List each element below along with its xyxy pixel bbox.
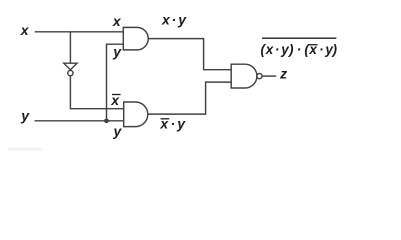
wire branch from x line down to inverter — [69, 32, 71, 63]
svg-text:): ) — [331, 42, 338, 57]
wire input y — [35, 120, 124, 122]
svg-text:x: x — [112, 13, 122, 29]
svg-text:·: · — [172, 12, 177, 28]
overbar of inner xbar in expression — [309, 44, 318, 46]
svg-text:y: y — [113, 123, 123, 139]
svg-text:x: x — [20, 22, 30, 38]
svg-text:y: y — [20, 107, 30, 123]
svg-text:x: x — [265, 42, 274, 57]
AND gate G1 — [123, 27, 148, 50]
wire G1 output to NAND upper input — [148, 39, 231, 70]
faint cropped caption remnant bottom-left — [8, 148, 42, 152]
NAND G3 output bubble — [257, 74, 262, 79]
wire G2 output to NAND lower input — [148, 82, 231, 114]
svg-text:y: y — [177, 12, 187, 28]
AND gate G2 — [124, 102, 148, 127]
svg-text:z: z — [279, 66, 287, 82]
svg-text:·: · — [275, 42, 280, 57]
wire input x — [35, 31, 124, 33]
overbar of xbar label — [112, 94, 121, 96]
svg-text:y: y — [112, 44, 122, 60]
NAND gate G3 — [231, 64, 257, 88]
overbar of xbar·y label — [161, 118, 170, 120]
junction dot on y wire — [104, 118, 109, 123]
wire branch y up to G1 lower input — [107, 44, 124, 121]
inverter bubble — [68, 70, 73, 75]
svg-text:·: · — [319, 42, 324, 57]
main overbar of expression — [262, 37, 336, 39]
svg-text:·: · — [171, 116, 176, 132]
svg-text:x: x — [159, 116, 169, 132]
svg-text:·: · — [297, 42, 302, 57]
wire inverter output down and right to G2 input xbar — [70, 76, 123, 109]
svg-text:): ) — [287, 42, 294, 57]
svg-text:x: x — [161, 12, 171, 28]
inverter triangle — [64, 63, 77, 70]
wire NAND output to z — [262, 75, 276, 77]
svg-text:y: y — [176, 116, 186, 132]
